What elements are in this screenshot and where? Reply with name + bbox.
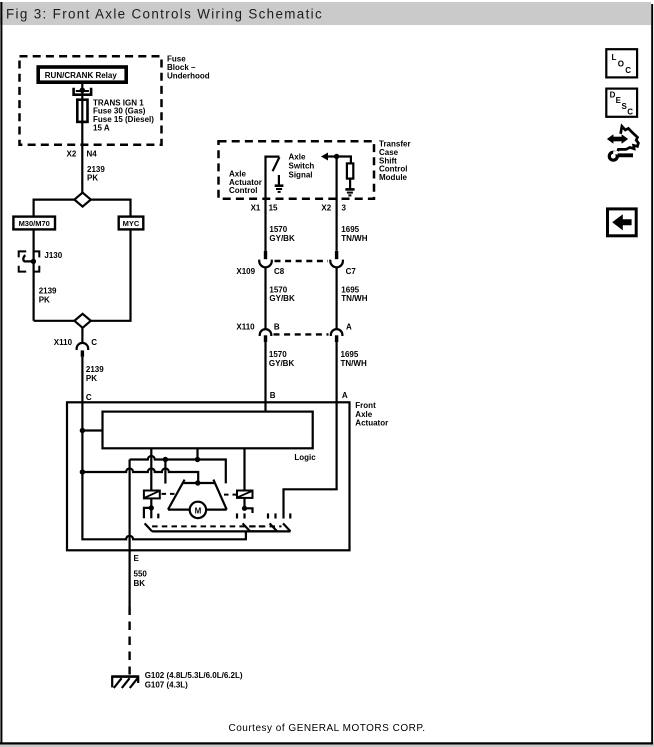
svg-text:TN/WH: TN/WH xyxy=(341,294,367,303)
svg-text:E: E xyxy=(134,554,140,563)
svg-text:TN/WH: TN/WH xyxy=(341,359,367,368)
svg-text:G107 (4.3L): G107 (4.3L) xyxy=(145,680,188,689)
page left border xyxy=(0,2,2,744)
connector M30/M70 xyxy=(13,217,55,230)
wire M30/M70 down xyxy=(32,229,34,320)
svg-text:1570: 1570 xyxy=(269,286,287,295)
svg-text:C7: C7 xyxy=(346,267,357,276)
svg-text:Actuator: Actuator xyxy=(355,419,388,428)
wire X110 to actuator xyxy=(81,357,83,403)
connector X110 B xyxy=(260,329,272,342)
svg-text:MYC: MYC xyxy=(123,219,140,228)
svg-text:Switch: Switch xyxy=(289,161,315,170)
wire relay to fuse xyxy=(81,83,83,100)
actuator outer box xyxy=(67,402,350,550)
connector X110 A xyxy=(331,329,343,342)
node armature drive xyxy=(195,480,200,485)
fuse block label xyxy=(167,55,210,81)
svg-text:C: C xyxy=(86,393,92,402)
svg-text:A: A xyxy=(346,322,352,331)
connector X109 C7 xyxy=(330,251,343,267)
svg-text:X1: X1 xyxy=(251,203,261,212)
svg-text:BK: BK xyxy=(134,579,146,588)
svg-text:1695: 1695 xyxy=(341,225,359,234)
svg-text:1695: 1695 xyxy=(341,286,359,295)
wire MYC down xyxy=(91,229,131,320)
back button xyxy=(608,209,637,236)
svg-text:RUN/CRANK Relay: RUN/CRANK Relay xyxy=(45,71,118,80)
node bus-logic xyxy=(195,457,200,462)
svg-text:X2: X2 xyxy=(321,203,331,212)
svg-text:Module: Module xyxy=(379,173,408,182)
armature trapezoid xyxy=(168,480,227,510)
svg-text:PK: PK xyxy=(87,174,98,183)
wire diamond to right branch xyxy=(91,200,131,217)
svg-text:2139: 2139 xyxy=(87,165,105,174)
wire arrow to resistor xyxy=(328,157,351,164)
svg-text:1570: 1570 xyxy=(269,225,287,234)
splice diamond top xyxy=(74,193,90,207)
node (signal junction) xyxy=(334,154,339,159)
svg-text:Axle: Axle xyxy=(355,410,372,419)
axle actuator control label xyxy=(229,170,262,196)
svg-text:X2: X2 xyxy=(67,149,77,158)
svg-text:C: C xyxy=(627,108,633,117)
svg-text:M: M xyxy=(195,506,202,515)
resistor (pull-up) xyxy=(347,163,353,178)
svg-text:X109: X109 xyxy=(236,267,255,276)
wire E dashed section xyxy=(128,607,130,675)
svg-text:Signal: Signal xyxy=(289,170,313,179)
svg-text:L: L xyxy=(612,53,617,62)
ground (module internal, resistor) xyxy=(345,189,354,195)
dashed link armature to right relay xyxy=(224,494,236,496)
svg-text:Courtesy of GENERAL MOTORS COR: Courtesy of GENERAL MOTORS CORP. xyxy=(229,723,426,734)
wire A inside (stepped) xyxy=(284,402,337,518)
svg-text:Fig 3: Front Axle Controls Wir: Fig 3: Front Axle Controls Wiring Schema… xyxy=(6,7,323,22)
wire X2-3 down xyxy=(336,157,338,251)
svg-text:TN/WH: TN/WH xyxy=(341,234,367,243)
module dashed box xyxy=(219,141,375,199)
node C-logic xyxy=(80,428,85,433)
motor M xyxy=(190,502,206,518)
X110 harness dashed link xyxy=(274,333,329,335)
contact stubs xyxy=(237,513,290,518)
svg-text:C8: C8 xyxy=(274,267,285,276)
wire resistor to ground xyxy=(349,179,351,189)
ground G102/G107 xyxy=(111,677,139,688)
svg-text:3: 3 xyxy=(342,203,347,212)
svg-text:1695: 1695 xyxy=(341,350,359,359)
wire B down / wire A down to actuator xyxy=(264,342,266,402)
relay coil K-right xyxy=(237,491,253,498)
svg-text:PK: PK xyxy=(39,295,50,304)
page right border xyxy=(651,4,653,744)
page bottom border xyxy=(0,742,653,744)
svg-text:Logic: Logic xyxy=(294,453,316,462)
svg-text:GY/BK: GY/BK xyxy=(269,234,295,243)
svg-text:2139: 2139 xyxy=(86,365,104,374)
fuse TRANS IGN 1 xyxy=(77,98,154,132)
wire C8 down / wire C7 down xyxy=(264,267,266,328)
shortcuts icon (double arrow, outline, wrench) xyxy=(607,126,639,160)
wire right relay to contact xyxy=(243,498,245,508)
svg-text:1570: 1570 xyxy=(269,350,287,359)
svg-text:Axle: Axle xyxy=(289,152,306,161)
svg-text:Front: Front xyxy=(355,401,376,410)
fuse block dashed box xyxy=(20,56,162,145)
wire logic to right relay xyxy=(243,448,245,490)
wire diamond to X110 connector xyxy=(81,328,83,343)
dashed link left relay to armature xyxy=(162,493,176,495)
bus wire from C (jumps E, relay and contact wires) xyxy=(82,469,198,484)
svg-text:PK: PK xyxy=(86,374,97,383)
svg-text:B: B xyxy=(270,391,276,400)
module label xyxy=(379,140,411,182)
wire left branch to bottom diamond xyxy=(34,320,75,322)
connector X109 C8 xyxy=(259,251,272,267)
contact plate left (dashed) xyxy=(145,523,278,531)
RUN/CRANK relay K1 xyxy=(38,67,126,82)
svg-text:15: 15 xyxy=(269,203,278,212)
svg-text:15 A: 15 A xyxy=(93,123,110,132)
wire diamond to left branch xyxy=(34,200,75,217)
relay pin socket bracket xyxy=(74,88,92,95)
svg-text:GY/BK: GY/BK xyxy=(269,294,295,303)
svg-text:G102 (4.8L/5.3L/6.0L/6.2L): G102 (4.8L/5.3L/6.0L/6.2L) xyxy=(145,671,243,680)
relay coil K-left xyxy=(144,491,160,499)
wire C to logic xyxy=(82,429,102,431)
splice J130 xyxy=(19,251,41,271)
svg-text:Underhood: Underhood xyxy=(167,72,210,81)
actuator label xyxy=(355,401,388,427)
svg-text:N4: N4 xyxy=(87,149,98,158)
title bar xyxy=(0,2,651,25)
svg-text:O: O xyxy=(618,60,624,69)
svg-text:J130: J130 xyxy=(44,251,62,260)
svg-text:B: B xyxy=(274,322,280,331)
junction dot at relay pin xyxy=(80,88,85,93)
node C-bus xyxy=(80,469,85,474)
svg-text:X110: X110 xyxy=(54,338,73,347)
signal arrow xyxy=(321,153,328,161)
wire bus to left contact xyxy=(164,460,166,484)
ground (module internal, switch) xyxy=(275,186,284,192)
svg-text:M30/M70: M30/M70 xyxy=(19,219,50,228)
node bus-contact xyxy=(163,457,168,462)
X109 harness dashed link xyxy=(275,260,329,262)
wire logic to left relay xyxy=(150,448,152,490)
svg-text:Control: Control xyxy=(229,186,257,195)
svg-text:C: C xyxy=(625,66,631,75)
logic box xyxy=(103,412,313,449)
svg-text:2139: 2139 xyxy=(39,287,57,296)
DESC button xyxy=(606,89,637,117)
axle switch signal label xyxy=(289,152,315,179)
svg-text:GY/BK: GY/BK xyxy=(269,359,295,368)
svg-text:550: 550 xyxy=(134,569,148,578)
splice diamond bottom xyxy=(74,314,90,328)
wire fuse to diamond xyxy=(81,122,83,193)
motor common bus (jumps relay wire) xyxy=(130,456,226,483)
connector MYC xyxy=(119,217,144,230)
svg-text:A: A xyxy=(342,391,348,400)
wire logic to bus xyxy=(196,448,198,459)
wire C inside (down left side) xyxy=(82,402,246,539)
switch S1 (axle actuator control driver) xyxy=(266,157,280,252)
wire left relay to contact xyxy=(150,498,152,508)
svg-text:X110: X110 xyxy=(236,322,255,331)
wire E vertical (from common bus out of box) xyxy=(129,460,131,607)
contact plate right (dashed) xyxy=(243,523,291,531)
svg-text:C: C xyxy=(91,338,97,347)
LOC button xyxy=(606,49,637,77)
connector X110 pin C xyxy=(77,343,89,357)
wire B into logic xyxy=(264,402,266,411)
